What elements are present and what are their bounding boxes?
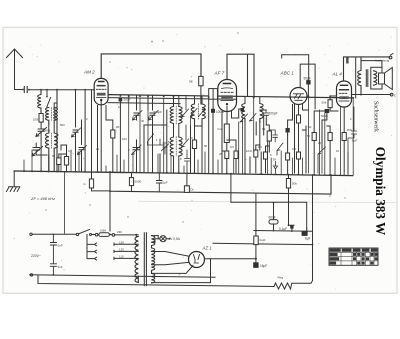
resistor row mid [254, 150, 258, 157]
resistor (antenna) [39, 114, 43, 123]
input bandfilter coil pair [46, 108, 58, 125]
resistor 50kΩ (AL4 grid) [328, 100, 332, 108]
junction dots on ground bus [23, 170, 345, 176]
svg-text:230: 230 [117, 230, 122, 234]
wire resistor to IF coil [200, 86, 202, 104]
main rail A [108, 95, 353, 98]
svg-text:AM 2: AM 2 [83, 70, 95, 75]
svg-text:500: 500 [60, 123, 65, 127]
bottom ground bus [14, 171, 352, 176]
output transformer [358, 57, 377, 95]
gang cap 3 [134, 96, 139, 173]
cap pair mid [160, 139, 169, 154]
fuse 0,8A [99, 233, 110, 237]
misc value labels [44, 105, 352, 161]
svg-text:5000: 5000 [44, 129, 51, 133]
field coil Feld [255, 194, 257, 236]
switch arrow (tone) [318, 147, 326, 158]
svg-text:200pF: 200pF [269, 112, 278, 116]
capacitor on sub-rail [157, 173, 163, 192]
tuning gang section 2 [79, 120, 84, 172]
tube AF7 [218, 80, 237, 112]
svg-text:0,1μF: 0,1μF [279, 227, 287, 231]
svg-text:125: 125 [119, 248, 124, 252]
svg-text:hm: hm [218, 127, 223, 131]
svg-text:150: 150 [119, 240, 124, 244]
long wires under AM2 [85, 90, 91, 172]
svg-text:Dr: Dr [191, 188, 194, 192]
trimmer arrow (osc) [32, 147, 43, 157]
AM2 top cap wire [101, 54, 201, 79]
antenna coil L1 [38, 90, 41, 114]
mechanical link to volume pot [64, 172, 66, 234]
IF transformer 2 [191, 97, 205, 127]
tube AL4 [337, 81, 352, 107]
svg-text:50: 50 [204, 144, 208, 148]
dial lamp [152, 236, 160, 243]
small boxes left of AF7 [209, 89, 218, 100]
sub-rail box [110, 171, 331, 194]
antenna series capacitor [24, 87, 27, 93]
wire from bus to mains switch area [109, 192, 111, 232]
scan noise [14, 32, 393, 290]
svg-text:ABC 1: ABC 1 [280, 71, 295, 76]
svg-text:Sachsenwerk: Sachsenwerk [373, 101, 379, 132]
svg-text:8μF: 8μF [305, 237, 311, 241]
AL4 top wire to speaker rail [344, 57, 390, 81]
AF7 pins [222, 107, 239, 125]
capacitor 200pF [264, 110, 269, 119]
svg-text:5nF: 5nF [58, 265, 63, 269]
tuning gang section 1 [73, 90, 78, 172]
svg-text:6V 0,5A: 6V 0,5A [169, 237, 181, 241]
bottom return line [38, 275, 274, 287]
main rail B [108, 98, 236, 104]
heater rail to output [213, 243, 313, 244]
AZ1 output wire [205, 258, 256, 260]
svg-text:TA: TA [273, 158, 277, 162]
antenna input wire [15, 89, 95, 91]
resistor 1MΩ (IF2) [192, 140, 196, 149]
junction dot AZ1 out [255, 258, 257, 260]
resistor (AL4 cathode) [312, 133, 316, 141]
TA terminal [274, 162, 278, 173]
AZ1 anode wires [152, 252, 190, 265]
svg-text:50k: 50k [292, 182, 297, 186]
electrolytic 16uF [253, 262, 258, 268]
svg-text:50pF: 50pF [124, 97, 131, 101]
capacitor 50pF (AM2 plate) [119, 98, 123, 102]
svg-text:0,8A: 0,8A [100, 229, 106, 233]
power switch [76, 233, 78, 235]
IF3 trimmers [240, 114, 256, 123]
svg-text:10nF: 10nF [246, 149, 253, 153]
svg-text:+: + [306, 227, 308, 231]
cap blob 50nF (AL4 grid) [325, 109, 330, 113]
gang cap 500pF [150, 96, 155, 172]
svg-text:0,2: 0,2 [292, 147, 296, 151]
svg-text:Olympia 383 W: Olympia 383 W [373, 147, 388, 235]
svg-text:5nF: 5nF [58, 244, 63, 248]
resistor on sub-rail 2 [129, 178, 133, 186]
line y230 [254, 230, 313, 233]
AF7 top wire [227, 54, 254, 96]
svg-text:ZF = 468 kHz: ZF = 468 kHz [30, 196, 55, 201]
speaker [361, 61, 392, 90]
svg-text:100pF: 100pF [216, 110, 225, 114]
coil secondary wire [54, 90, 57, 172]
long wire right down to Reg [292, 175, 313, 284]
IF transformer 3 [239, 97, 263, 122]
svg-text:50k: 50k [322, 101, 327, 105]
mains top line [32, 233, 76, 235]
Reg resistor [274, 283, 292, 289]
junction dots antenna line [40, 89, 86, 91]
svg-text:150: 150 [347, 128, 352, 132]
AL4 side wires [330, 57, 356, 98]
wires between AF7,ABC1 [245, 114, 264, 173]
svg-text:110: 110 [119, 255, 124, 259]
svg-text:63: 63 [262, 127, 266, 131]
junction dots rails [53, 95, 346, 276]
trimmer arrow (antenna cap) [36, 128, 47, 137]
svg-text:AL 4: AL 4 [332, 72, 343, 77]
svg-text:0,5: 0,5 [230, 145, 234, 149]
crease line [138, 201, 396, 202]
tube ABC1 [290, 88, 307, 105]
svg-text:50pF: 50pF [304, 76, 311, 80]
junction square [290, 225, 293, 228]
svg-text:AZ 1: AZ 1 [202, 246, 213, 251]
svg-text:0,1: 0,1 [68, 149, 72, 153]
AZ1 heater wires [152, 259, 211, 283]
mains capacitor 5nF lower [50, 264, 56, 275]
wires ABC1/AL4 region [303, 126, 307, 173]
coupling from AF7 region [282, 55, 309, 96]
resistor on sub-rail 1 [89, 179, 93, 188]
cap 8pF [185, 150, 190, 172]
svg-text:500pF: 500pF [154, 110, 163, 114]
capacitor 50pF (ABC1) [306, 80, 310, 84]
svg-text:20: 20 [96, 147, 100, 151]
IF1 trimmer arrows [182, 96, 189, 147]
IF2 trimmers [191, 109, 206, 127]
speaker bottom wire [352, 94, 391, 96]
svg-text:Feld: Feld [260, 238, 266, 242]
svg-text:30: 30 [141, 119, 145, 123]
svg-text:AF 7: AF 7 [214, 71, 225, 76]
resistor (diode load) [267, 131, 271, 141]
power transformer [135, 233, 155, 286]
cap blob (ABC1 grid) [286, 128, 290, 133]
extra comb wires to bus [24, 96, 353, 175]
electrolytic 8uF [302, 232, 308, 236]
svg-text:ne: ne [189, 80, 193, 84]
mains bottom line [30, 275, 216, 278]
capacitor to ground (antenna) [38, 122, 44, 171]
switch arrow mid [148, 134, 161, 145]
resistor row under AF7 [225, 151, 229, 159]
wave switch contact 1 [47, 90, 51, 108]
svg-text:60nF: 60nF [269, 216, 276, 220]
svg-text:25: 25 [219, 152, 223, 156]
oscillator coil pair [46, 103, 58, 171]
svg-text:0,1: 0,1 [258, 145, 262, 149]
resistor (osc grid) [66, 145, 68, 172]
IF transformer 1 [170, 96, 182, 172]
ground [7, 171, 20, 192]
svg-text:c: c [394, 94, 396, 98]
cap small (det) [269, 130, 277, 142]
capacitor 60nF [269, 220, 278, 224]
volume potentiometer [224, 124, 229, 143]
antenna terminal hochohmig [389, 56, 392, 59]
ABC1 pins [295, 104, 309, 174]
mains capacitor 5nF upper [50, 234, 56, 263]
svg-text:16μF: 16μF [260, 264, 267, 268]
choke Dr on sub-rail [184, 186, 189, 193]
svg-text:1M: 1M [116, 125, 121, 129]
svg-text:10: 10 [336, 149, 340, 153]
resistor under ABC1 [297, 115, 301, 123]
tube AM2 [94, 78, 108, 104]
cap 8uF (cathode) [348, 107, 357, 173]
resistor hanging right (50k) [286, 179, 290, 189]
svg-text:220V~: 220V~ [31, 254, 41, 258]
svg-text:1000: 1000 [33, 118, 40, 122]
svg-text:100: 100 [122, 137, 127, 141]
ABC1 top wires [300, 64, 315, 109]
svg-text:50: 50 [52, 154, 56, 158]
voltage selector [87, 235, 97, 261]
wire from bus down (x231) [231, 174, 307, 232]
rectifier tube AZ1 [189, 252, 205, 268]
padder capacitor [33, 143, 49, 170]
wires mid [144, 96, 167, 172]
small box component [57, 158, 61, 165]
antenna [7, 49, 23, 90]
svg-text:5000: 5000 [135, 180, 142, 184]
capacitor 100pF [211, 109, 215, 113]
data table [329, 248, 378, 265]
svg-text:1μF: 1μF [163, 181, 168, 185]
svg-text:10: 10 [118, 105, 122, 109]
svg-text:Reg: Reg [278, 276, 284, 280]
AM2 cathode pins [98, 102, 113, 172]
switch arrow (TA) [277, 143, 283, 155]
resistor (AVC) [112, 120, 114, 130]
resistor ne (grid leak) [199, 76, 203, 85]
